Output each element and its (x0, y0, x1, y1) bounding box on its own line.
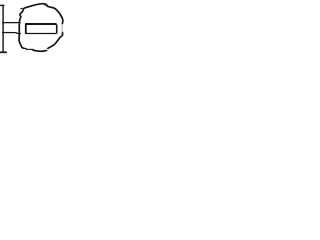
white mask shoulder row48 (27, 48, 33, 49)
connector P1 bottom serif (0, 51, 7, 53)
slot right cap (56, 24, 58, 33)
slot left cap (25, 24, 27, 34)
connector P1 top serif (0, 4, 5, 6)
socket body outline (faint right mid segment) (61, 24, 63, 32)
connector P1 mast (vertical body bar) (2, 5, 4, 52)
background (0, 0, 67, 55)
slot top line (25, 23, 56, 25)
socket outline underside tick top-right (44, 4, 47, 6)
wire W2 (lower pin) (2, 33, 21, 34)
slot bottom line (25, 33, 56, 35)
white mask shoulder row49 (24, 48, 26, 51)
socket body outline wiggle at upper-left (21, 7, 23, 9)
socket body outline (hand-drawn egg shape, main dark stroke) (19, 4, 63, 52)
wire W1 (upper pin) (2, 22, 21, 24)
white notch artifact right-bottom (46, 48, 49, 51)
